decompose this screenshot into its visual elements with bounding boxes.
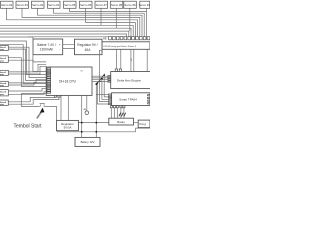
push button [40, 104, 45, 107]
svg-text:45A: 45A [85, 48, 92, 52]
wire servo5 [70, 8, 147, 39]
svg-text:Servo #10: Servo #10 [139, 3, 150, 7]
wire m2a [8, 58, 47, 87]
wire servo8 drop [115, 8, 117, 28]
arrow marks [119, 113, 126, 117]
regulator U2 9V [75, 39, 103, 55]
svg-text:port: port [0, 84, 4, 87]
CPU to Delta wires [92, 76, 108, 81]
delta top stubs [115, 69, 121, 72]
wire bus10 [0, 34, 127, 40]
svg-text:+: + [59, 43, 61, 47]
smart right pins [148, 95, 150, 104]
wire servo9 drop [129, 8, 131, 31]
Ponyjack [138, 120, 150, 128]
wire rail [57, 131, 136, 133]
wire m5a [8, 88, 47, 91]
svg-text:Servo #8: Servo #8 [111, 3, 123, 7]
bus diagonal [96, 74, 105, 85]
svg-text:+6V: +6V [131, 57, 133, 61]
svg-text:HE: HE [103, 37, 107, 41]
CPU left pin header [47, 68, 51, 93]
wire servo2 [22, 8, 140, 39]
servo S1 [1, 1, 14, 8]
indicator LED1 [85, 111, 89, 115]
servo S2 [16, 1, 29, 8]
wire t5 [96, 94, 108, 96]
wire reg5v b [67, 95, 69, 120]
servo S5 [64, 1, 77, 8]
wire servo3 [38, 8, 143, 39]
svg-text:Servo #9: Servo #9 [124, 3, 136, 7]
wire switch feed [21, 94, 46, 107]
servo S9 [124, 1, 137, 8]
wire d2 [0, 41, 47, 75]
svg-text:port: port [0, 103, 4, 106]
svg-text:5V/3A: 5V/3A [64, 126, 72, 130]
wire m1a [8, 47, 47, 77]
wire m4b [8, 82, 47, 85]
svg-text:Delta Hex Engine: Delta Hex Engine [117, 79, 141, 83]
svg-text:port: port [0, 60, 4, 63]
wire m4a [8, 79, 47, 83]
wire bus6 [86, 23, 136, 40]
wire bus7 [0, 25, 133, 39]
wire reg5v a [60, 95, 62, 120]
svg-text:Servo #2: Servo #2 [32, 3, 44, 7]
wire servo1 [7, 8, 138, 39]
svg-text:Servo #6: Servo #6 [80, 3, 92, 7]
header comb J1 [109, 37, 150, 40]
servo S10 [140, 1, 150, 8]
svg-text:DIP-48 setup pad Select Power: DIP-48 setup pad Select Power S [104, 45, 137, 48]
wire t3 [102, 79, 109, 100]
svg-text:Regulator 9V /: Regulator 9V / [77, 43, 97, 47]
wire reg bottom stub [56, 131, 58, 132]
wire bus11 [28, 37, 124, 40]
svg-text:Servo #1: Servo #1 [48, 3, 60, 7]
svg-text:Servo #5: Servo #5 [64, 3, 76, 7]
Relay K1 [109, 118, 134, 125]
junction dots [96, 74, 105, 84]
svg-text:AB: AB [84, 108, 87, 111]
wire servo4 [54, 8, 145, 39]
wire d3 [0, 45, 47, 84]
sensor M3 [0, 70, 8, 75]
svg-text:Batery 12V: Batery 12V [81, 140, 95, 144]
CPU bottom stubs [54, 95, 60, 97]
wire m3a [8, 64, 46, 72]
servo S3 [32, 1, 45, 8]
delta left pins [108, 76, 111, 83]
wire vbat [81, 95, 83, 137]
wire t2 [100, 49, 109, 101]
svg-text:port: port [0, 48, 4, 51]
servo S4 [48, 1, 61, 8]
sensor M6 [0, 100, 8, 105]
sensor M5 [0, 90, 8, 96]
wire led [86, 95, 88, 111]
svg-text:1300mAh: 1300mAh [40, 48, 54, 52]
wire m6b [8, 95, 59, 104]
svg-text:Servo #7: Servo #7 [96, 3, 108, 7]
wire bus8 [0, 28, 131, 39]
Regulator U3 5V [57, 120, 79, 130]
servo S8 [110, 1, 123, 8]
wire t1 [97, 83, 108, 104]
svg-text:Smart TPA64: Smart TPA64 [119, 98, 137, 102]
svg-text:Ponyj: Ponyj [140, 122, 147, 126]
wire battery to regulator [63, 44, 75, 48]
svg-text:Servo #4: Servo #4 [1, 3, 13, 7]
wire m6a [8, 95, 55, 101]
wire vpwr [95, 84, 97, 137]
wire bus9 [0, 31, 129, 39]
svg-text:Relay: Relay [117, 120, 125, 124]
annotation arrow [37, 112, 41, 118]
wire m5c [8, 92, 47, 95]
svg-text:Batere 7.4V /: Batere 7.4V / [37, 43, 56, 47]
wire servo6 drop [85, 8, 87, 22]
wire rail to edge [136, 128, 150, 132]
power header strip [102, 42, 150, 50]
svg-text:port: port [0, 73, 4, 76]
relay feed wire [78, 122, 108, 124]
wire t4 [104, 75, 108, 97]
wire servo10 drop [145, 8, 147, 11]
sensor M2 [0, 56, 8, 63]
Smart TPA64 [112, 93, 150, 106]
battery B1 7.4V [33, 39, 63, 55]
wires smart to relay [111, 108, 124, 118]
wire m3b [8, 66, 46, 74]
junction dot [95, 83, 97, 85]
wire d1 [0, 37, 47, 72]
wire switch out [44, 106, 56, 120]
Battery B2 12V [75, 137, 100, 146]
sensor M1 [0, 45, 8, 50]
smart bottom stubs [110, 106, 125, 108]
servo S6 [80, 1, 93, 8]
svg-text:Tembol Start: Tembol Start [14, 124, 43, 130]
wire m2b [8, 60, 46, 62]
strip to delta wires [117, 49, 148, 71]
servo S7 [95, 1, 108, 8]
wire relay to ponyjack [134, 122, 139, 124]
Delta Hex Engine [111, 72, 151, 89]
svg-text:Servo #3: Servo #3 [17, 3, 29, 7]
servo connector row [1, 1, 150, 8]
smart left pins [108, 94, 111, 105]
sensor M4 [0, 81, 8, 86]
svg-text:port: port [0, 93, 4, 96]
svg-text:DH-18 CPU: DH-18 CPU [59, 80, 77, 84]
wire m1b [8, 49, 47, 80]
left sensor boxes [0, 45, 8, 105]
wire servo7 drop [100, 8, 102, 25]
CPU U1 [46, 67, 92, 95]
svg-text:-: - [60, 47, 61, 51]
